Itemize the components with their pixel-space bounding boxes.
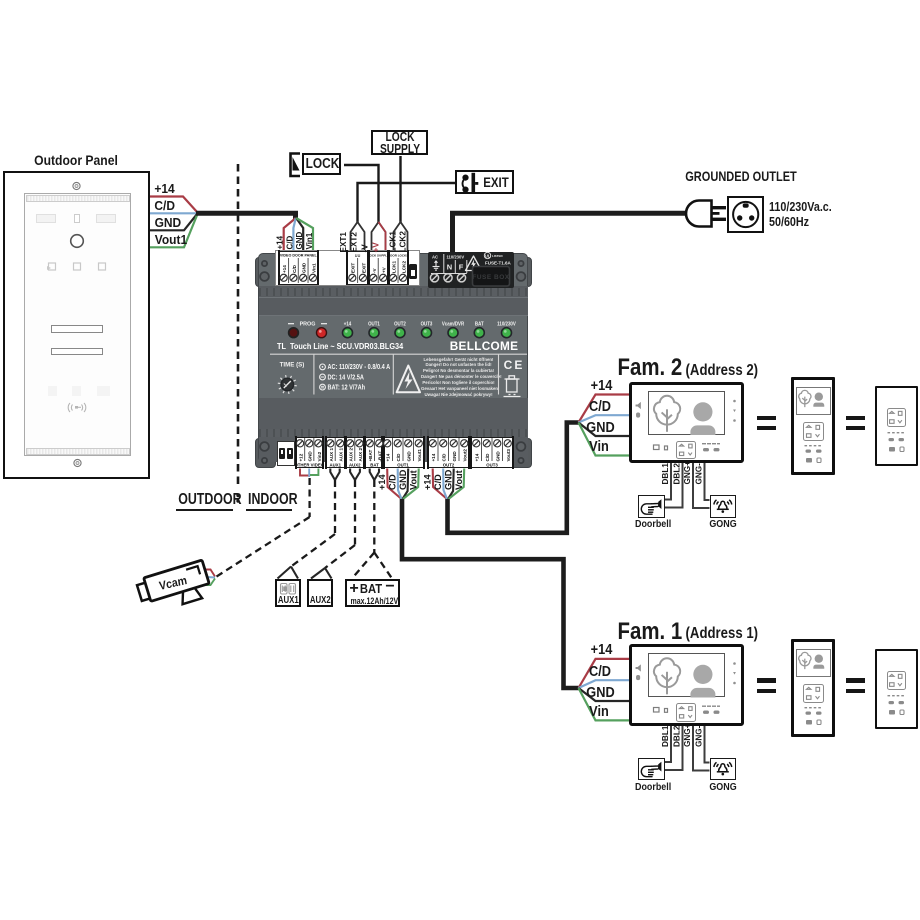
- svg-text:DBL1: DBL1: [661, 725, 670, 747]
- svg-text:GND: GND: [295, 232, 304, 250]
- svg-text:GNG-: GNG-: [694, 463, 703, 485]
- svg-text:Vout: Vout: [454, 470, 464, 490]
- svg-text:C/D: C/D: [387, 474, 397, 490]
- svg-text:+14: +14: [422, 474, 432, 490]
- svg-text:Vout: Vout: [408, 470, 418, 490]
- svg-text:+14: +14: [276, 235, 285, 249]
- svg-text:GND: GND: [443, 469, 453, 490]
- svg-text:GNG+: GNG+: [683, 461, 692, 485]
- svg-text:+14: +14: [377, 474, 387, 490]
- svg-text:Vin1: Vin1: [305, 232, 314, 249]
- svg-text:DBL1: DBL1: [661, 463, 670, 485]
- svg-text:GND: GND: [398, 469, 408, 490]
- svg-text:C/D: C/D: [285, 236, 294, 250]
- svg-text:DBL2: DBL2: [672, 463, 681, 485]
- svg-text:C/D: C/D: [433, 474, 443, 490]
- svg-text:DBL2: DBL2: [672, 725, 681, 747]
- svg-text:GNG+: GNG+: [683, 723, 692, 747]
- svg-text:GNG-: GNG-: [694, 725, 703, 747]
